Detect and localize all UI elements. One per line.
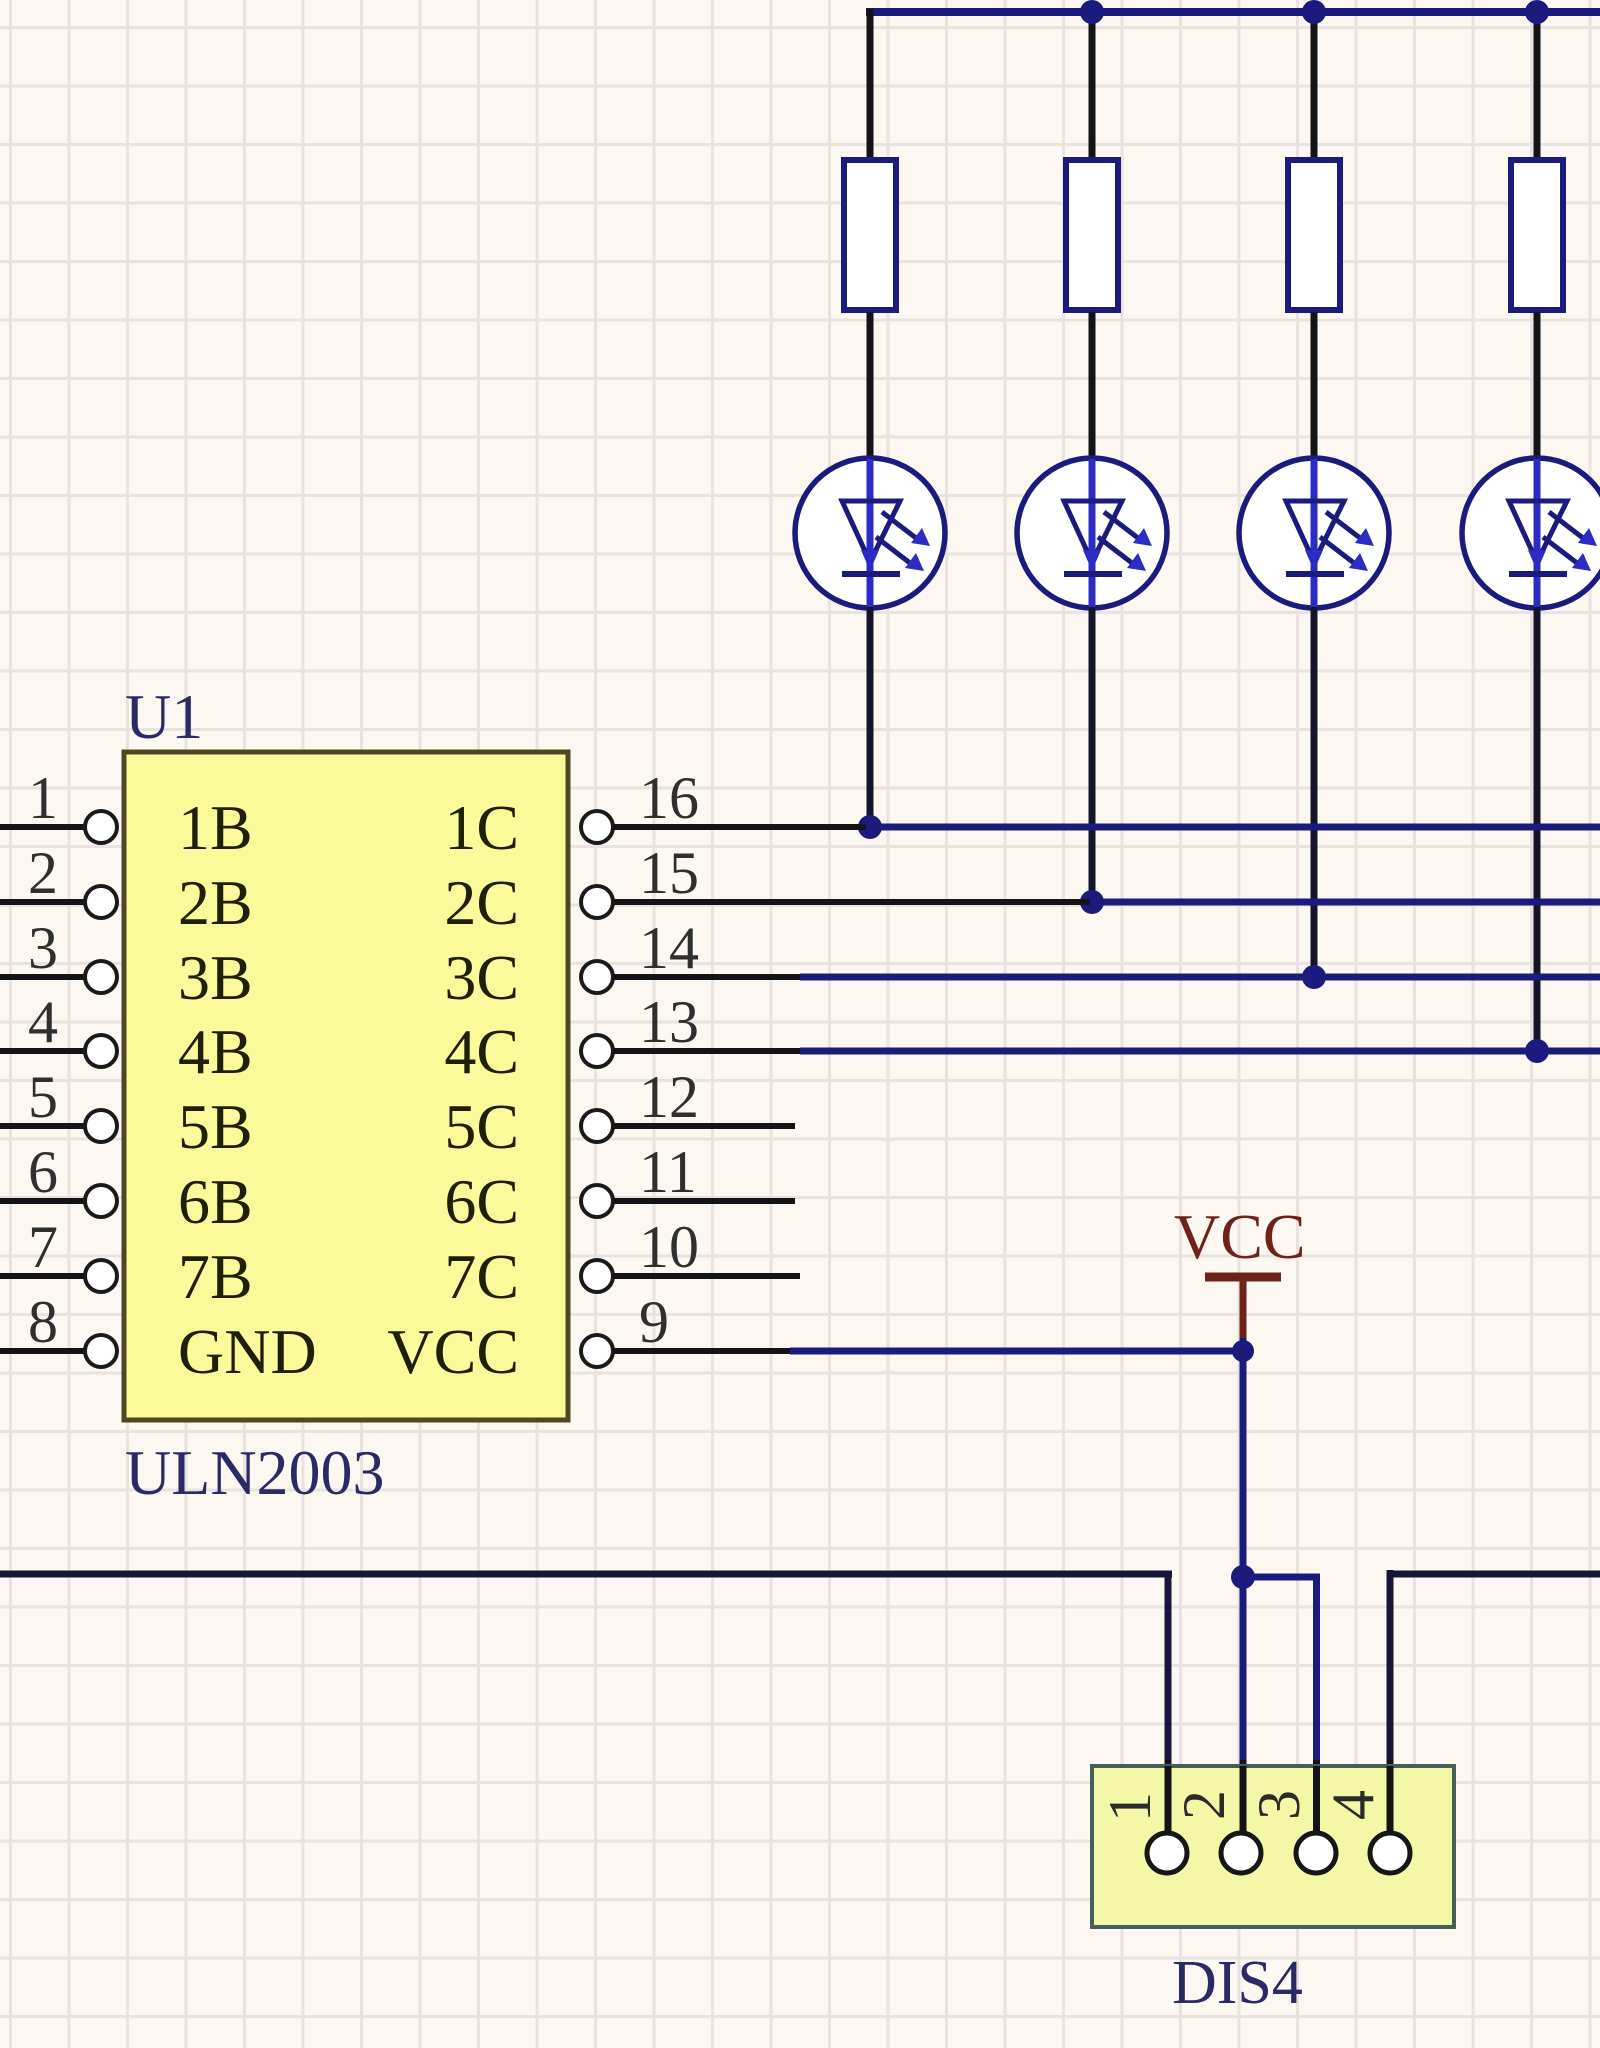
svg-text:U1: U1 xyxy=(125,681,203,752)
svg-text:16: 16 xyxy=(639,765,699,831)
svg-text:14: 14 xyxy=(639,915,699,981)
svg-text:6B: 6B xyxy=(178,1166,253,1237)
svg-text:1C: 1C xyxy=(444,792,519,863)
svg-text:5C: 5C xyxy=(444,1091,519,1162)
svg-text:1: 1 xyxy=(1097,1792,1163,1822)
svg-text:5: 5 xyxy=(28,1064,58,1130)
svg-text:3B: 3B xyxy=(178,942,253,1013)
svg-text:7B: 7B xyxy=(178,1241,253,1312)
svg-text:13: 13 xyxy=(639,989,699,1055)
svg-text:4C: 4C xyxy=(444,1016,519,1087)
svg-text:3: 3 xyxy=(28,915,58,981)
svg-text:2B: 2B xyxy=(178,867,253,938)
svg-text:11: 11 xyxy=(639,1139,697,1205)
svg-text:GND: GND xyxy=(178,1316,317,1387)
svg-text:6C: 6C xyxy=(444,1166,519,1237)
svg-text:7: 7 xyxy=(28,1214,58,1280)
svg-text:ULN2003: ULN2003 xyxy=(125,1437,385,1508)
svg-text:6: 6 xyxy=(28,1139,58,1205)
svg-text:9: 9 xyxy=(639,1289,669,1355)
svg-text:VCC: VCC xyxy=(387,1316,519,1387)
svg-text:15: 15 xyxy=(639,840,699,906)
svg-text:8: 8 xyxy=(28,1289,58,1355)
svg-text:2: 2 xyxy=(28,840,58,906)
svg-text:12: 12 xyxy=(639,1064,699,1130)
svg-text:DIS4: DIS4 xyxy=(1172,1949,1303,2017)
svg-text:3C: 3C xyxy=(444,942,519,1013)
svg-text:4: 4 xyxy=(28,989,58,1055)
svg-text:10: 10 xyxy=(639,1214,699,1280)
svg-text:4: 4 xyxy=(1320,1790,1386,1820)
svg-text:2C: 2C xyxy=(444,867,519,938)
svg-text:7C: 7C xyxy=(444,1241,519,1312)
svg-text:VCC: VCC xyxy=(1174,1201,1306,1272)
svg-text:3: 3 xyxy=(1246,1790,1312,1820)
svg-text:4B: 4B xyxy=(178,1016,253,1087)
svg-text:2: 2 xyxy=(1171,1790,1237,1820)
svg-text:5B: 5B xyxy=(178,1091,253,1162)
svg-text:1: 1 xyxy=(28,765,58,831)
svg-text:1B: 1B xyxy=(178,792,253,863)
